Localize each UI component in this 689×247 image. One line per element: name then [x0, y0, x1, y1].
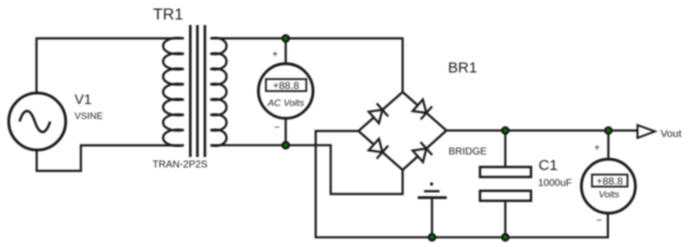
svg-text:BRIDGE: BRIDGE: [449, 147, 488, 158]
wire DC voltmeter top stub: [607, 131, 609, 161]
capacitor C1: [480, 167, 531, 201]
diode D2 upper-right (top to right): [412, 99, 432, 120]
svg-text:TRAN-2P2S: TRAN-2P2S: [153, 160, 208, 171]
source V1: [9, 93, 66, 150]
svg-text:+: +: [594, 143, 600, 154]
junction dot C1 bottom / bottom rail: [502, 234, 508, 240]
svg-text:BR1: BR1: [448, 59, 477, 76]
svg-text:Volts: Volts: [599, 189, 620, 200]
junction dot ground / bottom rail: [429, 234, 435, 240]
svg-text:VSINE: VSINE: [75, 111, 104, 122]
wire V1 bottom jog to transformer primary bottom: [37, 145, 184, 171]
wire secondary bottom to bridge bottom: [210, 145, 402, 194]
svg-text:AC Volts: AC Volts: [267, 98, 305, 109]
wire V1 top to transformer primary: [37, 38, 184, 93]
ground symbol: [418, 182, 447, 237]
svg-text:C1: C1: [539, 157, 558, 174]
svg-text:V1: V1: [75, 91, 92, 107]
bridge BR1 diamond: [359, 92, 447, 170]
junction dot bottom AC wire / AC meter: [283, 142, 289, 148]
diode D3 lower-left (left to bottom): [368, 138, 388, 159]
junction dot DC meter / DC rail: [605, 127, 611, 133]
primary winding: [163, 38, 184, 146]
svg-text:TR1: TR1: [153, 7, 183, 24]
AC voltmeter U-AC: [258, 64, 313, 119]
svg-text:−: −: [274, 123, 280, 134]
svg-text:+: +: [272, 50, 278, 61]
sine symbol: [20, 111, 51, 132]
wire C1 bottom stub: [504, 201, 506, 238]
wire secondary top rail to bridge top: [210, 38, 402, 92]
core lines: [189, 25, 192, 157]
Vout terminal arrow: [638, 125, 655, 138]
diode D4 lower-right (bottom to right): [412, 142, 432, 163]
svg-text:+88.8: +88.8: [596, 176, 623, 188]
junction dot top rail / AC meter: [283, 35, 289, 41]
wire AC voltmeter bottom stub: [285, 119, 287, 146]
svg-text:−: −: [596, 215, 602, 226]
secondary winding: [210, 38, 226, 146]
diode D1 upper-left (left to top): [368, 103, 388, 124]
svg-text:Vout: Vout: [661, 128, 682, 140]
transformer TR1: [163, 25, 226, 157]
DC voltmeter: [581, 159, 635, 213]
wire bridge right vertex DC plus rail to Vout: [446, 129, 637, 131]
svg-text:+88.8: +88.8: [273, 80, 300, 92]
wire bridge left vertex to bottom rail and bottom rail to DC voltmeter minus: [316, 131, 608, 237]
wire AC voltmeter top stub: [285, 38, 287, 64]
wire C1 top stub: [504, 131, 506, 168]
junction dot C1 top / DC rail: [502, 127, 508, 133]
svg-text:1000uF: 1000uF: [538, 178, 572, 189]
